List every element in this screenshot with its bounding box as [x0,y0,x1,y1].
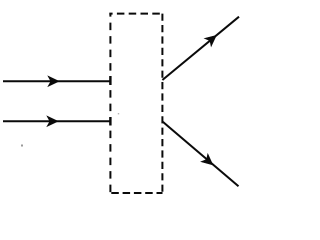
bottom edge [109,192,162,194]
black box (dashed rectangle) [109,14,162,193]
top edge [109,13,162,15]
terminal tick upper input [109,76,111,85]
wire: lower output diagonal [163,122,239,187]
wire: upper input line [3,80,111,82]
arrowhead lower output [201,154,216,169]
scan speck 2 [118,113,119,114]
wire: lower input line [3,120,111,122]
arrowhead lower input [47,116,58,126]
arrowhead upper output [205,31,220,46]
right edge [161,14,163,193]
scan speck [21,145,23,147]
arrowhead upper input [48,76,59,86]
terminal tick lower input [109,117,111,126]
wire: upper output diagonal [162,17,239,80]
left edge [109,14,111,193]
